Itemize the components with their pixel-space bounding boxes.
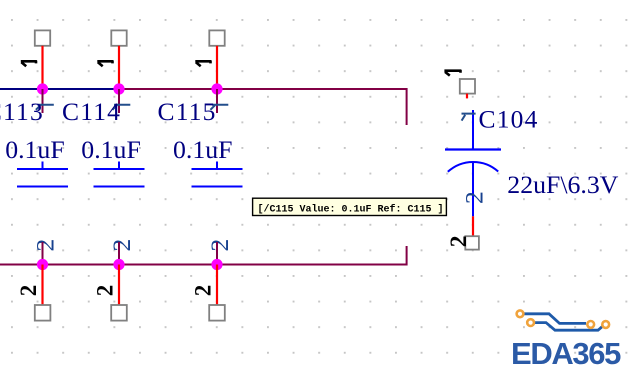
capacitor C114 symbol plates [94, 162, 145, 187]
capacitor C115 symbol plates [192, 162, 243, 187]
wire: right vertical upper stub [406, 88, 408, 125]
junction top, C113 column [37, 83, 48, 94]
wire: red drop from rail to bottom port, C113 column [41, 265, 43, 306]
capacitor C104 top plate [445, 148, 501, 150]
wire: red drop from top port to rail, C115 column [216, 46, 218, 89]
capacitor C113 pin 1 tick [36, 105, 54, 110]
svg-text:2: 2 [460, 191, 489, 204]
wire: stub above bottom junction, C113 column [42, 242, 44, 265]
junction bottom, C115 column [211, 259, 222, 270]
svg-text:C114: C114 [62, 97, 121, 126]
wire: red drop from rail to bottom port, C114 column [118, 265, 120, 306]
svg-text:[/C115 Value: 0.1uF Ref: C115: [/C115 Value: 0.1uF Ref: C115 ] [258, 204, 444, 216]
port square top pad, C115 column [209, 30, 224, 45]
capacitor C114 pin 1 tick [112, 105, 130, 110]
wire: top rail right segment (maroon) [119, 88, 408, 90]
svg-text:C104: C104 [479, 104, 539, 133]
svg-text:2: 2 [191, 285, 216, 297]
wire: right vertical lower stub [406, 246, 408, 266]
pin number 1 (black, rotated) C114 column port [97, 61, 113, 67]
wire: red drop from top port to rail, C113 column [41, 46, 43, 89]
junction bottom, C113 column [37, 259, 48, 270]
junction top, C114 column [113, 83, 124, 94]
port square bottom pad, C115 column [209, 305, 225, 321]
EDA365 logo [511, 310, 621, 371]
wire: stub below top junction, C115 column [216, 89, 218, 113]
svg-text:C115: C115 [158, 97, 217, 126]
port square top pad, C104 column [460, 79, 475, 94]
svg-text:2: 2 [107, 239, 136, 252]
svg-text:0.1uF: 0.1uF [81, 135, 141, 164]
port square bottom pad, C114 column [111, 305, 127, 321]
svg-text:2: 2 [446, 236, 472, 248]
capacitor C104 curved plate [448, 162, 498, 172]
capacitor C104 pin 1 [472, 110, 474, 150]
svg-text:0.1uF: 0.1uF [5, 135, 64, 164]
svg-text:EDA365: EDA365 [511, 336, 621, 371]
svg-text:2: 2 [93, 285, 118, 297]
svg-text:0.1uF: 0.1uF [173, 135, 233, 164]
port square bottom pad, C104 column [465, 236, 479, 249]
port square top pad, C114 column [111, 30, 126, 45]
wire: stub below top junction, C113 column [42, 89, 44, 113]
svg-text:22uF\6.3V: 22uF\6.3V [507, 170, 618, 199]
pin number 1 (black, rotated) C113 column port [21, 61, 37, 67]
wire: stub above bottom junction, C114 column [118, 242, 120, 265]
svg-text:2: 2 [205, 239, 234, 252]
port square top pad, C113 column [35, 30, 50, 45]
wire: red drop from rail to bottom port, C115 column [216, 265, 218, 306]
junction top, C115 column [211, 83, 222, 94]
wire: red drop from top port to rail, C114 column [118, 46, 120, 89]
capacitor C115 pin 1 tick [210, 105, 228, 110]
tooltip: [/C115 Value: 0.1uF Ref: C115 ] [253, 198, 447, 215]
svg-text:C113: C113 [0, 97, 44, 126]
capacitor C113 symbol plates [17, 162, 68, 187]
capacitor C104 pin 1 tick [462, 114, 476, 121]
wire: bottom rail (maroon) [0, 264, 408, 266]
pin number 1 (black, rotated) C104 top port [444, 70, 461, 76]
wire: top rail left segment (navy net) [0, 88, 119, 90]
pin number 1 (black, rotated) C115 column port [195, 61, 211, 67]
capacitor C104 pin 2 [472, 163, 474, 217]
wire: stub below top junction, C114 column [118, 89, 120, 113]
junction bottom, C114 column [113, 259, 124, 270]
port square bottom pad, C113 column [35, 305, 51, 321]
svg-text:2: 2 [16, 285, 41, 297]
wire: red stub above C104 bottom port [472, 216, 474, 236]
svg-text:2: 2 [31, 239, 60, 252]
wire: red stub below C104 top port [466, 94, 468, 99]
wire: stub above bottom junction, C115 column [216, 242, 218, 265]
